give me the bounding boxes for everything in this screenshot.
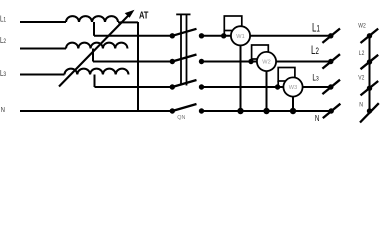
junction W1 drop on N xyxy=(237,108,243,114)
terminal N link xyxy=(360,103,379,122)
wire L1 tap drop xyxy=(93,22,95,36)
AT variable arrow xyxy=(59,10,135,87)
svg-text:N: N xyxy=(1,106,5,114)
wire L2 bus xyxy=(20,48,66,50)
svg-text:W1: W1 xyxy=(236,34,244,40)
wire L2 tap drop xyxy=(92,49,94,62)
svg-text:L2: L2 xyxy=(359,51,365,58)
wire L1 tap to switch xyxy=(94,35,172,37)
measurement bus vertical xyxy=(369,36,371,111)
terminal V2 label xyxy=(358,75,364,82)
wire L1 bus xyxy=(20,21,66,23)
wire row3 switch to link xyxy=(202,86,331,88)
node L2 output label xyxy=(311,45,319,58)
node N output label xyxy=(315,115,320,123)
svg-text:W3: W3 xyxy=(289,85,297,91)
svg-text:W2: W2 xyxy=(262,60,270,66)
terminal L2 link xyxy=(361,55,379,69)
wattmeter W1 voltage drop xyxy=(240,36,242,111)
wire N bus xyxy=(20,110,172,112)
svg-text:N: N xyxy=(315,115,320,123)
wattmeter W3 xyxy=(275,68,303,97)
svg-text:L2: L2 xyxy=(0,37,6,45)
junction W3 drop on N xyxy=(290,108,296,114)
node L3 label xyxy=(0,71,6,79)
wire row2 switch to link xyxy=(202,61,331,63)
link L2 output xyxy=(322,54,340,68)
wire L3 tap drop xyxy=(94,75,96,88)
autotransformer AT winding L1 xyxy=(66,16,118,22)
AT label xyxy=(139,9,149,20)
node L2 label xyxy=(0,37,6,45)
wire row1 switch to link xyxy=(202,35,331,37)
svg-text:QN: QN xyxy=(177,115,185,121)
svg-text:L3: L3 xyxy=(0,71,6,79)
switch QN pole 3 xyxy=(170,80,205,90)
svg-text:AT: AT xyxy=(139,9,149,20)
wire L3 bus xyxy=(20,74,65,76)
svg-text:L1: L1 xyxy=(312,22,320,35)
svg-text:W2: W2 xyxy=(358,23,365,30)
wattmeter W1 xyxy=(221,16,250,45)
terminal N label xyxy=(359,102,363,109)
autotransformer AT winding L2 xyxy=(66,43,128,49)
svg-text:L1: L1 xyxy=(0,16,6,24)
switch QN pole 4 N xyxy=(170,104,205,114)
svg-text:N: N xyxy=(359,102,363,109)
terminal V2 link xyxy=(361,81,379,95)
node L3 output label xyxy=(312,72,319,82)
wattmeter W3 voltage drop xyxy=(292,87,294,111)
wire winding common vertical to N xyxy=(137,22,139,111)
wattmeter W2 voltage drop xyxy=(266,62,268,112)
svg-text:V2: V2 xyxy=(358,75,364,82)
switch QN pole 1 xyxy=(170,29,205,39)
node L1 label xyxy=(0,16,6,24)
svg-text:L2: L2 xyxy=(311,45,319,58)
link L1 output xyxy=(322,29,340,43)
wire L1 winding end to vertical xyxy=(118,21,138,23)
autotransformer AT winding L3 xyxy=(65,69,129,75)
wattmeter W2 xyxy=(248,45,276,71)
node N label xyxy=(1,106,5,114)
node L1 output label xyxy=(312,22,320,35)
wire L3 tap to switch xyxy=(95,86,173,88)
link N output xyxy=(323,104,341,118)
link L3 output xyxy=(322,80,340,94)
terminal L2 label xyxy=(359,51,365,58)
terminal W2 link xyxy=(361,29,379,43)
wire N switch to link xyxy=(202,110,332,112)
junction W2 drop on N xyxy=(263,108,269,114)
wire L2 tap to switch xyxy=(93,61,172,63)
switch QN linkage bar 2 xyxy=(186,14,188,85)
terminal W2 label xyxy=(358,23,365,30)
switch QN label xyxy=(177,115,185,121)
switch QN pole 2 xyxy=(170,55,205,65)
switch QN linkage bar 1 xyxy=(180,14,182,85)
switch QN linkage cap xyxy=(176,13,190,15)
